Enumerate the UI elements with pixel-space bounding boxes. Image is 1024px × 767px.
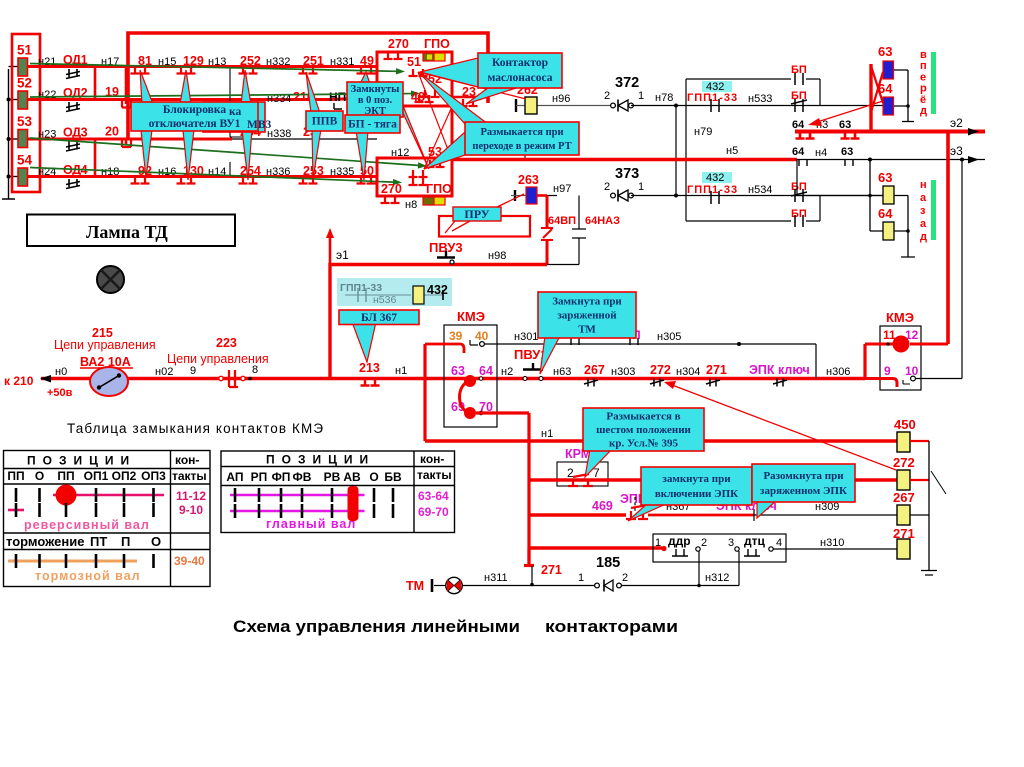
svg-text:ТМ: ТМ (406, 579, 424, 593)
svg-text:шестом положении: шестом положении (596, 424, 691, 436)
svg-text:н331: н331 (330, 56, 354, 68)
svg-text:заряженном ЭПК: заряженном ЭПК (760, 485, 847, 497)
svg-text:тормозной вал: тормозной вал (35, 569, 141, 583)
svg-text:главный вал: главный вал (266, 517, 356, 531)
pointer экт-49 (360, 72, 370, 84)
svg-text:н301: н301 (514, 331, 538, 343)
highlight 432 lower (702, 172, 732, 183)
pointer arrow to contact 64 (814, 101, 883, 123)
svg-text:Замкнута при: Замкнута при (552, 296, 622, 308)
svg-text:э1: э1 (336, 248, 349, 262)
svg-text:БП: БП (791, 181, 807, 193)
svg-text:ПОЗИЦИИ: ПОЗИЦИИ (266, 453, 375, 467)
svg-text:РП: РП (251, 470, 268, 484)
svg-text:КМЭ: КМЭ (886, 310, 914, 325)
svg-text:р: р (920, 83, 927, 95)
wire н97-row (547, 195, 883, 197)
controller КМЭ right (880, 326, 921, 390)
callout Усл 395 (583, 408, 704, 451)
svg-text:д: д (920, 105, 927, 117)
svg-text:АВ: АВ (343, 470, 361, 484)
svg-text:9: 9 (190, 365, 196, 377)
svg-text:ОД3: ОД3 (63, 126, 88, 140)
GPO upper box (377, 52, 452, 106)
table главный вал (221, 451, 455, 533)
ground вперёд (894, 70, 914, 122)
svg-text:372: 372 (615, 75, 639, 91)
wire row4 54 (28, 175, 378, 178)
svg-text:450: 450 (894, 417, 916, 432)
pointer ппв-251 (306, 72, 320, 113)
svg-text:469: 469 (592, 499, 613, 513)
svg-text:ГПО: ГПО (426, 182, 452, 196)
svg-text:39: 39 (449, 329, 463, 343)
svg-text:432: 432 (427, 283, 448, 297)
svg-text:Контактор: Контактор (492, 57, 548, 69)
svg-text:н1: н1 (395, 365, 407, 377)
svg-text:дтц: дтц (744, 534, 765, 548)
pointer блокировка-129 (180, 70, 191, 104)
svg-text:такты: такты (417, 468, 452, 482)
svg-text:Размыкается в: Размыкается в (606, 411, 680, 423)
svg-text:н311: н311 (484, 572, 508, 584)
svg-text:ГПП1-33: ГПП1-33 (687, 184, 738, 196)
svg-text:267: 267 (584, 363, 605, 377)
wire row2 52 (28, 98, 378, 100)
svg-text:н4: н4 (815, 147, 827, 159)
svg-text:п: п (920, 60, 927, 72)
svg-text:ддр: ддр (668, 534, 691, 548)
svg-text:ЭПК ключ: ЭПК ключ (749, 363, 810, 377)
wire н5 (452, 158, 797, 162)
svg-text:185: 185 (596, 555, 620, 571)
svg-text:ПП: ПП (57, 469, 74, 483)
braking shaft row 39-40 (8, 560, 137, 563)
svg-text:в 0 поз.: в 0 поз. (358, 95, 393, 106)
svg-text:Блокировка: Блокировка (163, 104, 226, 116)
svg-text:ОП1: ОП1 (84, 469, 109, 483)
svg-text:ОП3: ОП3 (141, 469, 166, 483)
svg-text:ГПО: ГПО (424, 37, 450, 51)
svg-text:н22: н22 (38, 89, 56, 101)
svg-text:замкнута при: замкнута при (662, 473, 731, 485)
pointer arrow 272 (672, 385, 896, 470)
wire pin10 to э3 (915, 160, 962, 379)
wire rows 3-4 link (95, 139, 126, 177)
ЭПК contact row (529, 513, 626, 516)
svg-text:Таблица замыкания контактов КМ: Таблица замыкания контактов КМЭ (67, 421, 324, 436)
controller КМЭ left (444, 325, 497, 427)
callout режим РТ (465, 122, 579, 155)
svg-text:н02: н02 (155, 366, 173, 378)
svg-text:МВ3: МВ3 (247, 119, 272, 131)
wire pin2 pin3 (699, 551, 739, 586)
svg-text:н13: н13 (208, 56, 226, 68)
svg-text:торможение: торможение (6, 534, 84, 549)
pointer ппв-253 (312, 129, 321, 179)
svg-text:2: 2 (604, 90, 610, 102)
relay box ПРУ (439, 216, 530, 237)
wire row1 51 (28, 65, 378, 68)
svg-text:1: 1 (638, 90, 644, 102)
svg-text:н310: н310 (820, 537, 844, 549)
svg-text:223: 223 (216, 336, 237, 350)
svg-text:кон-: кон- (175, 453, 199, 467)
svg-text:63: 63 (839, 119, 851, 131)
svg-text:такты: такты (172, 469, 207, 483)
callout маслонасос (478, 53, 562, 88)
wire э2 (795, 130, 985, 134)
wire н96-row (631, 105, 883, 107)
pointer мвз-254 (242, 130, 252, 180)
wire to relays (869, 64, 872, 133)
svg-text:64: 64 (792, 146, 805, 158)
pointer бп-тяга-50 (356, 131, 368, 180)
svg-text:н336: н336 (266, 166, 290, 178)
wire row3 53 red part (28, 138, 233, 141)
svg-text:н96: н96 (552, 93, 570, 105)
svg-text:н534: н534 (748, 184, 772, 196)
callout МВЗ (203, 102, 265, 132)
green pointer line row3 (30, 138, 418, 165)
svg-text:н97: н97 (553, 183, 571, 195)
svg-text:ГПП1-33: ГПП1-33 (340, 282, 382, 294)
svg-text:н8: н8 (405, 199, 417, 211)
contact 64ВП (546, 196, 549, 265)
callout Блокировка (131, 102, 258, 131)
svg-text:н305: н305 (657, 331, 681, 343)
svg-text:ФП: ФП (272, 470, 291, 484)
svg-text:заряженной: заряженной (557, 310, 617, 322)
svg-text:64НАЗ: 64НАЗ (585, 215, 620, 227)
svg-text:н17: н17 (101, 56, 119, 68)
contactor coil 53 (18, 130, 28, 148)
ground right (921, 441, 937, 575)
svg-text:кр. Усл.№ 395: кр. Усл.№ 395 (609, 438, 678, 450)
wire э2 to КМЭ (946, 132, 950, 345)
pointer блокировка-92 (141, 130, 152, 178)
pointer экт-52 (399, 96, 429, 169)
svg-text:272: 272 (893, 455, 915, 470)
svg-text:н303: н303 (611, 366, 635, 378)
svg-text:н79: н79 (694, 126, 712, 138)
svg-text:ФВ: ФВ (293, 470, 312, 484)
label box Лампа ТД (27, 215, 235, 247)
svg-text:267: 267 (893, 490, 915, 505)
main wire к210 (41, 377, 865, 380)
svg-text:252: 252 (240, 54, 261, 68)
callout ППВ (306, 111, 343, 131)
pointer маслонасос-262 (466, 88, 516, 104)
svg-text:н304: н304 (676, 366, 700, 378)
svg-text:Лампа ТД: Лампа ТД (86, 222, 168, 242)
svg-text:49: 49 (360, 54, 374, 68)
pointer маслонасос-51 (420, 58, 478, 87)
wire to ддр (529, 546, 662, 549)
contactor bank frame (12, 34, 40, 192)
reversing shaft row 9-10 (8, 509, 24, 512)
green pointer line row4 (30, 168, 393, 183)
pointer ТМ-ПВУ1 (540, 336, 560, 374)
pointer БЛ367-213 (352, 322, 376, 362)
contact 39-40 (425, 344, 464, 353)
svg-text:а: а (920, 192, 927, 204)
row4 cam contacts 92 130 254 253 50 (131, 177, 150, 184)
green pointer line row2 (30, 94, 411, 97)
svg-text:63: 63 (878, 170, 892, 185)
svg-text:БП - тяга: БП - тяга (348, 119, 397, 131)
svg-text:з: з (920, 205, 926, 217)
svg-text:ПТ: ПТ (90, 534, 107, 549)
svg-text:8: 8 (252, 364, 258, 376)
svg-text:53: 53 (17, 114, 33, 129)
svg-text:ОД2: ОД2 (63, 86, 88, 100)
svg-text:РВ: РВ (324, 470, 341, 484)
svg-text:П: П (121, 534, 130, 549)
svg-text:63: 63 (451, 364, 465, 378)
pointer эпк-вкл (628, 503, 668, 521)
wire 40 row (484, 344, 816, 379)
svg-text:+50в: +50в (47, 387, 73, 399)
svg-text:АП: АП (226, 470, 243, 484)
contactor coil 52 (18, 91, 28, 109)
svg-text:н63: н63 (553, 366, 571, 378)
GPO aux element bottom (423, 197, 434, 205)
wire н310 (773, 548, 898, 550)
svg-text:63: 63 (878, 44, 892, 59)
svg-text:О: О (35, 469, 44, 483)
svg-text:н14: н14 (208, 166, 226, 178)
contactor coil 51 (18, 58, 28, 76)
pointer блокировка-81 (140, 70, 153, 104)
switch 223 (219, 376, 223, 380)
pointer lines ГПО (418, 72, 526, 169)
svg-text:1: 1 (655, 537, 661, 549)
svg-text:включении ЭПК: включении ЭПК (655, 488, 738, 500)
svg-text:1: 1 (578, 572, 584, 584)
svg-text:э3: э3 (950, 144, 963, 158)
svg-text:О: О (151, 534, 161, 549)
svg-text:23: 23 (462, 85, 476, 99)
svg-text:ПП: ПП (7, 469, 24, 483)
callout ТМ (538, 292, 636, 338)
svg-text:н1: н1 (541, 428, 553, 440)
contact 52a (409, 170, 428, 177)
svg-text:БП: БП (791, 208, 807, 220)
svg-text:маслонасоса: маслонасоса (487, 72, 552, 84)
svg-text:2: 2 (604, 181, 610, 193)
GPP1-33 upper box (686, 79, 820, 221)
svg-text:213: 213 (359, 361, 380, 375)
svg-text:64: 64 (792, 119, 805, 131)
svg-text:н533: н533 (748, 93, 772, 105)
svg-text:контакторами: контакторами (545, 618, 678, 636)
power feeder top bus (128, 33, 488, 139)
wire rows 1-2 link (95, 67, 126, 105)
svg-text:64: 64 (479, 364, 493, 378)
svg-text:н12: н12 (391, 147, 409, 159)
GPP1-33 lower box (686, 196, 820, 222)
black link near 53 (452, 143, 525, 158)
svg-text:129: 129 (183, 54, 204, 68)
svg-text:ка: ка (229, 106, 241, 118)
svg-text:н0: н0 (55, 366, 67, 378)
svg-text:н98: н98 (488, 250, 506, 262)
svg-text:251: 251 (303, 54, 324, 68)
pointer рт-низ (424, 132, 465, 169)
GPO aux element top (423, 53, 434, 61)
panel ГПП1-33 н536 432 (337, 278, 452, 306)
svg-text:2: 2 (701, 537, 707, 549)
svg-text:64ВП: 64ВП (548, 215, 576, 227)
svg-text:е: е (920, 71, 926, 83)
contactor coil 54 (18, 168, 28, 186)
svg-text:кон-: кон- (420, 452, 444, 466)
svg-text:н: н (920, 179, 927, 191)
svg-text:ПРУ: ПРУ (464, 207, 489, 221)
svg-text:1: 1 (638, 181, 644, 193)
svg-text:271: 271 (706, 363, 727, 377)
green pointer line row1 (30, 64, 396, 72)
switch lever mark (931, 471, 946, 494)
contact ПВУ5 (571, 338, 579, 345)
wire 70 out (476, 413, 529, 566)
callout БП-тяга (345, 115, 400, 133)
svg-text:64: 64 (878, 206, 893, 221)
svg-text:11-12: 11-12 (176, 489, 206, 503)
wire н1 row 450 (425, 439, 897, 442)
svg-text:реверсивный вал: реверсивный вал (24, 518, 150, 532)
svg-text:69-70: 69-70 (418, 505, 449, 519)
svg-text:БВ: БВ (384, 470, 402, 484)
svg-text:63: 63 (841, 146, 853, 158)
svg-text:270: 270 (381, 182, 402, 196)
callout ЭПК заряжен (752, 464, 855, 502)
svg-text:272: 272 (650, 363, 671, 377)
wire 271 end (527, 548, 530, 563)
svg-text:51: 51 (407, 55, 421, 69)
svg-text:ППВ: ППВ (312, 116, 338, 128)
pointer мвз-252 (241, 70, 251, 104)
svg-text:БЛ 367: БЛ 367 (361, 312, 397, 324)
wire э3 (795, 159, 985, 161)
main shaft rows (230, 495, 365, 511)
pointer рт-верх (420, 73, 488, 124)
svg-text:а: а (920, 218, 927, 230)
svg-text:О: О (369, 470, 378, 484)
svg-text:432: 432 (706, 172, 724, 184)
svg-text:20: 20 (105, 125, 119, 139)
svg-text:в: в (920, 49, 927, 61)
svg-text:н335: н335 (330, 166, 354, 178)
svg-text:н5: н5 (726, 145, 738, 157)
svg-text:н78: н78 (655, 92, 673, 104)
box ддр дтц (653, 534, 786, 562)
svg-text:Замкнуты: Замкнуты (351, 84, 400, 95)
svg-text:40: 40 (475, 329, 489, 343)
highlight 432 (702, 81, 732, 92)
wire н311 (462, 585, 739, 587)
svg-text:ТМ: ТМ (578, 324, 596, 336)
wires назад (795, 160, 915, 258)
svg-text:2: 2 (567, 466, 574, 480)
row1 cam contacts 81 129 252 251 49 (131, 67, 150, 74)
svg-text:263: 263 (518, 173, 539, 187)
svg-text:н536: н536 (373, 294, 396, 306)
lamp symbol (97, 266, 124, 293)
svg-text:КМЭ: КМЭ (457, 309, 485, 324)
svg-text:н2: н2 (501, 366, 513, 378)
svg-text:Разомкнута при: Разомкнута при (763, 470, 844, 482)
reversing shaft row 11-12 (53, 494, 164, 497)
svg-text:ГПП1-33: ГПП1-33 (687, 92, 738, 104)
svg-text:9: 9 (884, 364, 891, 378)
svg-text:Цепи управления: Цепи управления (54, 338, 156, 352)
svg-text:н332: н332 (266, 56, 290, 68)
svg-text:51: 51 (17, 43, 33, 58)
pointer усл395-КРМ (585, 449, 612, 477)
contact КМЭ 11-12 (865, 343, 948, 346)
svg-text:н21: н21 (38, 56, 56, 68)
svg-text:3: 3 (728, 537, 734, 549)
svg-text:ПОЗИЦИИ: ПОЗИЦИИ (27, 454, 136, 468)
svg-text:39-40: 39-40 (174, 554, 205, 568)
left bus bracket (2, 67, 18, 200)
svg-text:ОП2: ОП2 (112, 469, 137, 483)
svg-text:63-64: 63-64 (418, 489, 449, 503)
svg-text:52: 52 (17, 76, 32, 91)
wire row3 53 black part (232, 138, 377, 140)
pointer блокировка-130 (183, 130, 194, 180)
callout БЛ 367 (339, 310, 419, 325)
wire н98 э1 (330, 265, 547, 379)
svg-text:54: 54 (17, 153, 33, 168)
svg-text:Схема управления линейными: Схема управления линейными (233, 618, 520, 636)
callout ЭКТ (347, 82, 403, 117)
svg-text:переходе в режим РТ: переходе в режим РТ (472, 141, 571, 152)
svg-text:2: 2 (622, 572, 628, 584)
contact КМЭ 9-10 (865, 379, 897, 388)
svg-text:н18: н18 (101, 166, 119, 178)
pointer эпк-заряж (757, 500, 777, 518)
svg-text:4: 4 (776, 537, 782, 549)
svg-text:271: 271 (541, 563, 562, 577)
svg-text:270: 270 (388, 37, 409, 51)
hidden junction box lines (230, 68, 250, 176)
svg-text:НП: НП (329, 90, 346, 104)
svg-text:Размыкается при: Размыкается при (480, 127, 563, 138)
svg-text:БП: БП (791, 64, 807, 76)
svg-text:н306: н306 (826, 366, 850, 378)
band вперёд (931, 52, 936, 114)
svg-text:373: 373 (615, 166, 639, 182)
svg-text:ё: ё (920, 94, 926, 106)
svg-text:н312: н312 (705, 572, 729, 584)
callout ЭПК вкл (641, 467, 752, 505)
svg-text:9-10: 9-10 (179, 503, 203, 517)
GPO lower box (377, 158, 452, 196)
table реверсивный/тормозной вал (4, 451, 211, 587)
svg-text:к 210: к 210 (4, 374, 34, 388)
band назад (931, 180, 936, 240)
svg-text:э2: э2 (950, 116, 963, 130)
contact 23 (452, 96, 488, 98)
svg-text:д: д (920, 231, 927, 243)
svg-text:отключателя ВУ1: отключателя ВУ1 (149, 118, 241, 130)
